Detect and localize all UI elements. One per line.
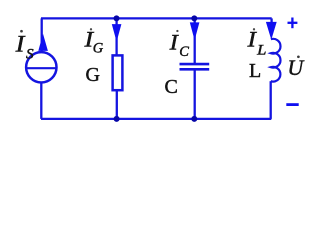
svg-text:L: L (249, 60, 261, 82)
node top C (191, 15, 197, 21)
wire left branch bottom (40, 83, 42, 119)
arrow I_G (down) (112, 24, 122, 42)
label U (287, 55, 305, 80)
node top G (114, 15, 120, 21)
wire left branch top (41, 18, 43, 51)
svg-text:I: I (14, 32, 25, 57)
wire top rail (41, 17, 272, 19)
resistor G box (113, 55, 123, 90)
wire C branch top (194, 18, 196, 63)
label I_G (83, 27, 103, 57)
node bottom G (114, 116, 120, 122)
arrow I_C (down) (190, 22, 200, 40)
label I_L (246, 26, 266, 58)
svg-text:S: S (26, 46, 34, 62)
current source I_S (26, 52, 56, 82)
capacitor C plates (180, 63, 210, 66)
svg-text:I: I (168, 30, 179, 55)
svg-text:C: C (165, 76, 178, 98)
svg-text:C: C (179, 44, 189, 60)
arrow I_S (up) (38, 34, 48, 51)
svg-text:L: L (256, 42, 266, 58)
svg-text:I: I (246, 26, 257, 51)
wire L branch bottom (270, 81, 272, 119)
plus sign (288, 22, 298, 24)
wire G branch bottom (116, 91, 118, 119)
label I_C (168, 30, 189, 60)
svg-text:G: G (86, 64, 100, 86)
minus sign (286, 103, 298, 106)
node bottom C (191, 116, 197, 122)
inductor L coil (271, 39, 281, 82)
wire G branch top (115, 18, 117, 55)
svg-text:U: U (287, 55, 305, 80)
wire C branch bottom (194, 70, 196, 119)
svg-text:G: G (93, 41, 104, 57)
wire bottom rail (41, 118, 271, 120)
arrow I_L (down) (266, 22, 277, 40)
label I_S (14, 30, 34, 62)
wire L branch top (270, 18, 272, 24)
